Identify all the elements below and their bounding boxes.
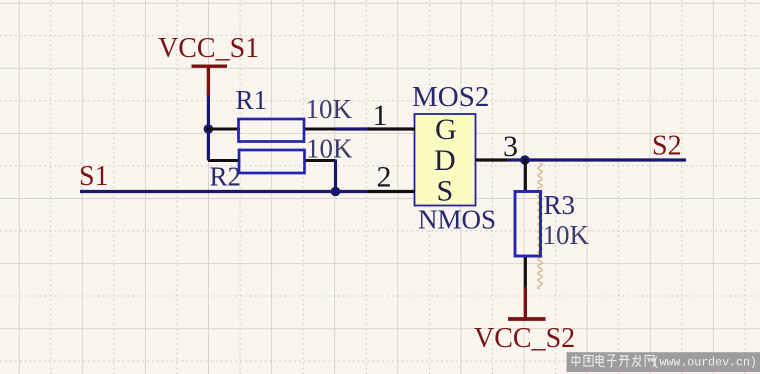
resistor R1: [206, 119, 337, 142]
watermark bar: [567, 352, 760, 372]
wire R1 to pin 1: [336, 127, 370, 130]
junction node on S1 wire: [331, 187, 341, 197]
watermark CJK 中: [572, 355, 654, 368]
svg-text:S2: S2: [652, 131, 682, 162]
error squiggle marker: [538, 163, 542, 289]
op MOS2 component body: [415, 114, 476, 206]
power port VCC_S1 symbol: [192, 66, 228, 96]
pin 3 of MOS2: [476, 158, 509, 161]
svg-text:R2: R2: [210, 162, 242, 192]
pin 1 of MOS2: [368, 127, 415, 130]
svg-text:(www.ourdev.cn): (www.ourdev.cn): [653, 357, 757, 370]
watermark CJK 开: [619, 356, 630, 367]
svg-text:R3: R3: [544, 190, 576, 220]
svg-text:10K: 10K: [306, 94, 353, 124]
wire R2 down to S1 net: [334, 160, 337, 192]
wire S1 bus: [80, 190, 368, 193]
svg-text:VCC_S1: VCC_S1: [158, 33, 259, 64]
svg-text:R1: R1: [236, 85, 268, 115]
svg-text:NMOS: NMOS: [418, 205, 496, 235]
svg-text:2: 2: [377, 161, 392, 194]
watermark CJK 电: [596, 355, 605, 367]
resistor R2: [208, 150, 336, 173]
svg-text:D: D: [434, 144, 456, 177]
svg-text:1: 1: [373, 99, 388, 132]
svg-text:MOS2: MOS2: [412, 81, 489, 113]
power port VCC_S2 symbol: [508, 287, 546, 319]
svg-text:3: 3: [503, 130, 518, 163]
junction node 3: [520, 155, 530, 165]
watermark CJK 发: [632, 355, 642, 367]
svg-text:S: S: [437, 175, 454, 208]
wire S2: [525, 158, 686, 161]
resistor R3: [515, 158, 541, 288]
wire from VCC_S1 to R2: [207, 95, 210, 161]
wire pin3 to node 3: [507, 158, 527, 161]
svg-text:S1: S1: [79, 161, 109, 192]
svg-text:VCC_S2: VCC_S2: [474, 323, 575, 354]
svg-text:G: G: [435, 113, 457, 146]
pin 2 of MOS2: [368, 190, 415, 193]
junction node at R1/R2 split: [204, 124, 214, 134]
watermark CJK 国: [584, 356, 593, 367]
svg-text:10K: 10K: [543, 220, 590, 250]
watermark CJK 子: [607, 355, 617, 367]
watermark CJK 网: [645, 356, 654, 368]
svg-text:10K: 10K: [306, 134, 353, 164]
